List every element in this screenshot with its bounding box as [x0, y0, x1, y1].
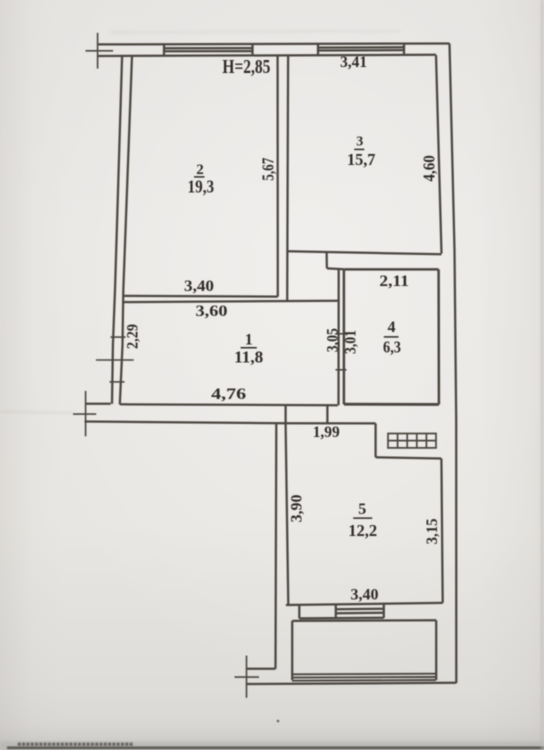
- wall: room 4 box right: [437, 269, 440, 404]
- wall: room 2 bottom interior: [123, 295, 278, 298]
- svg-text:3,05: 3,05: [325, 328, 342, 352]
- svg-text:15,7: 15,7: [347, 150, 376, 169]
- wall: room 3 bottom interior: [287, 251, 441, 254]
- svg-text:11,8: 11,8: [234, 347, 263, 366]
- wall: left exterior inner polyline: [120, 56, 132, 404]
- wall: corridor/room5 left inner: [286, 423, 289, 605]
- bottom-left tiny text marks: [18, 743, 134, 746]
- svg-text:H=2,85: H=2,85: [222, 56, 270, 78]
- wall: room 4 box bottom: [344, 403, 439, 406]
- window W3 (room 3 top): [318, 44, 404, 55]
- wall: top exterior inner line: [98, 55, 436, 56]
- bottom edge dark line: [7, 746, 544, 749]
- wall: room 4 box top: [344, 268, 438, 271]
- opening tick 1 on rooms 1/4 wall: [336, 333, 347, 335]
- wall: room 1 bottom interior: [120, 404, 338, 405]
- wall: stub top at bottom-left: [86, 403, 111, 405]
- wall: left exterior outer polyline: [112, 56, 122, 404]
- faint top streak: [110, 31, 400, 33]
- axis cross bottom-left: [73, 391, 96, 436]
- svg-text:6,3: 6,3: [383, 338, 401, 357]
- svg-text:1,99: 1,99: [313, 424, 340, 441]
- balcony railing line 1: [292, 673, 436, 676]
- svg-text:4,60: 4,60: [419, 155, 438, 182]
- wall: rooms 2/3 divider right line: [286, 55, 289, 301]
- svg-text:2: 2: [196, 162, 204, 178]
- svg-text:5: 5: [358, 501, 366, 518]
- wall: bottom-left outer turn: [247, 668, 276, 670]
- bottom exterior outer line: [247, 683, 457, 684]
- wall: right exterior polyline: [450, 44, 457, 684]
- wall: room 2 right interior: [276, 55, 278, 296]
- wall: step vertical under room 1 right: [326, 405, 328, 423]
- axis cross top-left: [86, 33, 114, 69]
- wall: room 3 right interior polyline: [436, 55, 442, 254]
- bottom edge gray band: [0, 742, 544, 750]
- opening tick 2 on rooms 1/4 wall: [336, 369, 347, 371]
- wall: vent shaft left vertical: [374, 423, 376, 457]
- door tick left of balcony window: [298, 605, 300, 619]
- svg-text:12,2: 12,2: [348, 521, 377, 540]
- room 4 label: [383, 319, 401, 357]
- wall: top exterior outer line: [98, 42, 450, 45]
- axis dash on room 1 left wall: [96, 359, 134, 361]
- svg-text:3,90: 3,90: [288, 495, 305, 523]
- balcony top line: [292, 619, 436, 622]
- wall: room 1 top interior: [123, 301, 339, 302]
- svg-text:1: 1: [245, 331, 253, 348]
- wall: room 4 box left: [343, 269, 346, 404]
- balcony railing line 3: [292, 679, 436, 682]
- room 3 label: [347, 135, 376, 169]
- svg-text:3,40: 3,40: [351, 587, 379, 604]
- svg-text:3,40: 3,40: [184, 278, 214, 295]
- room 2 label: [188, 162, 215, 197]
- opening tick 2 on room 1 left wall: [110, 381, 125, 383]
- wall: step between room 3 and room 4 horizontal: [327, 267, 344, 270]
- svg-text:4,76: 4,76: [211, 386, 246, 403]
- svg-text:2,29: 2,29: [124, 324, 141, 349]
- wall: room 5 notch horizontal: [376, 457, 442, 458]
- svg-text:3,41: 3,41: [340, 54, 367, 71]
- faint crease left of bottom-left axis: [0, 412, 73, 414]
- svg-text:19,3: 19,3: [188, 177, 215, 197]
- balcony railing line 2: [292, 676, 436, 679]
- window W2 (room 2 top): [164, 44, 253, 56]
- room 5 label: [348, 501, 377, 540]
- svg-text:4: 4: [388, 319, 396, 336]
- room 1 label: [234, 331, 263, 366]
- speck near balcony: [277, 720, 280, 723]
- window sill line (room 5 bottom): [299, 617, 384, 620]
- balcony left line: [291, 621, 293, 680]
- svg-text:3,01: 3,01: [343, 330, 360, 354]
- vent grid box: [388, 434, 436, 448]
- wall: step vertical under room 1 left: [284, 404, 286, 423]
- wall: room 1 bottom outer long line: [85, 422, 376, 424]
- wall: corridor/room5 left outer: [274, 423, 277, 669]
- wall: room 1 right / rooms 1-4 divider left line: [337, 268, 339, 405]
- balcony right line: [435, 620, 437, 680]
- wall: room 5 right interior: [441, 459, 442, 603]
- opening tick 1 on room 1 left wall: [111, 336, 126, 338]
- wall: room 5 bottom interior: [286, 603, 443, 605]
- right edge shading: [541, 0, 544, 750]
- wall: step between room 3 and room 4 vertical: [325, 252, 328, 269]
- svg-text:3,60: 3,60: [196, 303, 228, 320]
- svg-text:2,11: 2,11: [379, 273, 409, 290]
- svg-text:3: 3: [356, 135, 363, 150]
- svg-text:5,67: 5,67: [259, 157, 278, 180]
- svg-text:3,15: 3,15: [424, 518, 441, 544]
- axis cross bottom (balcony left): [235, 656, 260, 698]
- window W5 (room 5 bottom): [336, 604, 384, 618]
